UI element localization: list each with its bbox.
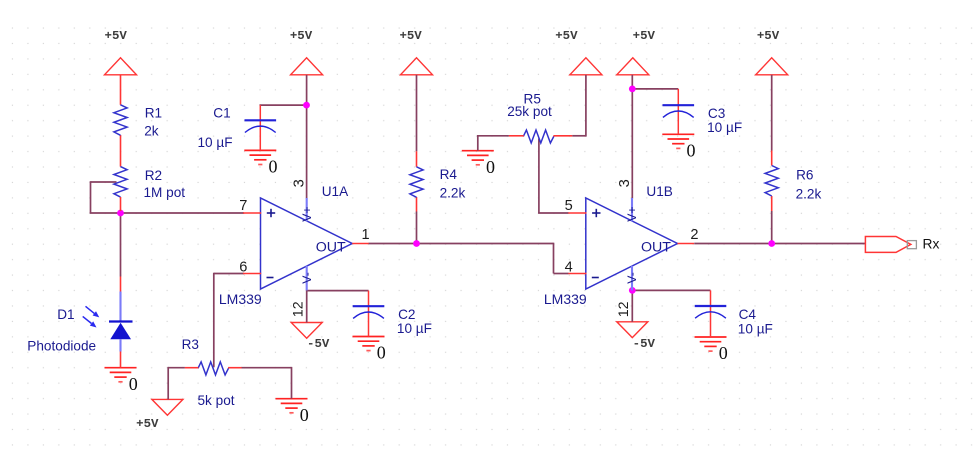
- junction: node A: [117, 210, 124, 217]
- -5V power symbol (U1B pin 12): [617, 322, 656, 351]
- ground 0 (below C3): [662, 134, 695, 160]
- svg-text:LM339: LM339: [544, 291, 587, 307]
- svg-text:V+: V+: [300, 206, 314, 221]
- svg-text:C3: C3: [708, 106, 725, 121]
- svg-text:0: 0: [129, 374, 138, 394]
- op-amp U1A: [243, 198, 369, 290]
- ground 0 (R5 left): [462, 151, 495, 177]
- wire: [167, 367, 169, 400]
- svg-text:D1: D1: [57, 307, 74, 322]
- svg-text:OUT: OUT: [316, 239, 346, 255]
- wire: U1A pin 6 horizontal: [214, 273, 244, 275]
- wire: C3 tap: [632, 88, 678, 90]
- svg-text:1: 1: [362, 227, 370, 243]
- svg-text:-5V: -5V: [307, 337, 330, 351]
- wire: U1B V- branch to C4: [632, 289, 710, 291]
- svg-text:+5V: +5V: [136, 417, 159, 431]
- wire: U1A output net: [369, 243, 554, 245]
- resistor R6: [765, 166, 778, 197]
- ground 0 (below C4): [695, 337, 728, 363]
- svg-text:R1: R1: [145, 106, 162, 121]
- off-page port Rx: [865, 237, 916, 253]
- wire: R5 left to ground: [478, 135, 509, 137]
- +5V power symbol (R6): [756, 29, 788, 75]
- wire: C1 tap: [260, 104, 307, 106]
- svg-text:+5V: +5V: [290, 29, 313, 43]
- ground 0 (R3 right): [276, 399, 309, 425]
- svg-text:C2: C2: [398, 307, 415, 322]
- svg-text:R4: R4: [440, 167, 458, 182]
- resistor R4 pins: [416, 151, 418, 211]
- potentiometer R5: [509, 130, 572, 143]
- wire: R5 right up to +5V: [572, 135, 586, 137]
- potentiometer R3: [185, 362, 242, 375]
- junction: U1A out / R4: [413, 240, 420, 247]
- wire: R2 wiper tap: [91, 181, 117, 183]
- svg-text:Photodiode: Photodiode: [27, 338, 96, 353]
- capacitor C2: [353, 291, 385, 337]
- svg-text:10 µF: 10 µF: [738, 322, 773, 337]
- wire: R3 left to +5V: [168, 367, 185, 369]
- svg-text:3: 3: [292, 179, 308, 187]
- svg-text:12: 12: [616, 301, 632, 317]
- svg-text:0: 0: [687, 141, 696, 161]
- junction: U1B V- / C4: [629, 287, 636, 294]
- resistor R1 pins: [120, 75, 122, 167]
- svg-text:U1A: U1A: [322, 184, 349, 199]
- wire: +5V down to R6: [771, 75, 773, 151]
- svg-text:10 µF: 10 µF: [707, 120, 742, 135]
- junction: C1 tap: [303, 102, 310, 109]
- svg-text:C4: C4: [739, 307, 757, 322]
- svg-text:V-: V-: [625, 272, 639, 284]
- svg-text:25k pot: 25k pot: [507, 104, 552, 119]
- +5V power symbol (R1 branch): [105, 29, 137, 75]
- capacitor C4: [695, 290, 727, 337]
- svg-text:6: 6: [239, 259, 247, 275]
- svg-text:+5V: +5V: [633, 29, 656, 43]
- capacitor C1: [245, 105, 277, 150]
- +5V power symbol (R5): [555, 29, 602, 75]
- svg-text:1M pot: 1M pot: [144, 185, 186, 200]
- wire: U1A V- branch to C2: [307, 290, 369, 292]
- svg-text:2.2k: 2.2k: [440, 186, 466, 201]
- wire: U1B output net to port: [694, 243, 865, 245]
- svg-text:V+: V+: [625, 206, 639, 221]
- svg-text:0: 0: [377, 343, 386, 363]
- wire: [553, 243, 555, 274]
- +5V power symbol (R4): [399, 29, 432, 75]
- svg-text:0: 0: [719, 343, 728, 363]
- wire: U1B V- down to -5V: [631, 290, 633, 322]
- junction: C3 tap: [629, 86, 636, 93]
- svg-text:2k: 2k: [144, 124, 159, 139]
- -5V power symbol (U1A pin 12): [291, 323, 330, 352]
- svg-text:10 µF: 10 µF: [198, 135, 233, 150]
- svg-text:C1: C1: [213, 106, 230, 121]
- wire: [554, 273, 569, 275]
- svg-text:5k pot: 5k pot: [198, 393, 235, 408]
- svg-text:V-: V-: [300, 272, 314, 284]
- wire: +5V down to R4: [416, 75, 418, 152]
- svg-text:R2: R2: [145, 168, 162, 183]
- svg-text:7: 7: [239, 198, 247, 214]
- wire: R4 bottom to output net: [416, 212, 418, 244]
- wire: [291, 367, 293, 399]
- wire: R6 bottom to output net: [771, 211, 773, 244]
- wire: R5 wiper down: [538, 139, 540, 214]
- resistor R6 pins: [771, 151, 773, 212]
- svg-text:+5V: +5V: [105, 29, 128, 43]
- capacitor C3: [663, 89, 695, 134]
- potentiometer R2: [114, 167, 127, 211]
- wire: to U1B pin 5: [538, 212, 568, 214]
- wire: U1A V- down to -5V: [306, 290, 308, 323]
- svg-text:4: 4: [565, 259, 573, 275]
- svg-text:+5V: +5V: [555, 29, 578, 43]
- +5V power symbol (U1A V+ / C1): [290, 29, 323, 75]
- svg-text:12: 12: [290, 301, 306, 317]
- wire: [477, 135, 479, 151]
- svg-text:+5V: +5V: [757, 29, 780, 43]
- svg-text:Rx: Rx: [923, 237, 940, 252]
- svg-text:10 µF: 10 µF: [397, 321, 432, 336]
- svg-text:R3: R3: [182, 337, 199, 352]
- svg-text:R6: R6: [796, 168, 813, 183]
- svg-text:2: 2: [690, 227, 698, 243]
- resistor R4: [410, 167, 423, 198]
- wire: node A down to D1: [120, 213, 122, 277]
- svg-text:0: 0: [486, 157, 495, 177]
- svg-text:LM339: LM339: [219, 291, 262, 307]
- ground 0 (below C1): [244, 150, 277, 176]
- +5V power symbol (U1B V+ / C3): [617, 29, 656, 75]
- svg-text:3: 3: [617, 179, 633, 187]
- op-amp U1B: [568, 198, 694, 290]
- wire: down to R3 wiper: [213, 273, 215, 368]
- diode D1 (photodiode): [83, 277, 133, 368]
- svg-text:-5V: -5V: [633, 337, 656, 351]
- svg-text:+5V: +5V: [399, 29, 422, 43]
- wire: [585, 75, 587, 137]
- wire: R3 right to ground: [241, 367, 291, 369]
- resistor R1: [114, 105, 127, 136]
- wire: wiper loop vertical: [90, 181, 92, 213]
- junction: U1B out / R6: [768, 240, 775, 247]
- ground 0 (below D1): [105, 368, 138, 394]
- wire: node A horizontal to U1A pin 7: [90, 212, 244, 214]
- ground 0 (below C2): [353, 337, 386, 363]
- svg-text:0: 0: [269, 157, 278, 177]
- svg-text:U1B: U1B: [646, 184, 672, 199]
- svg-text:5: 5: [565, 198, 573, 214]
- wire: +5V to U1A V+ (pin 3): [306, 75, 308, 199]
- svg-text:0: 0: [300, 405, 309, 425]
- svg-text:2.2k: 2.2k: [796, 186, 822, 201]
- wire: +5V to U1B V+ (pin 3): [631, 75, 633, 199]
- svg-text:OUT: OUT: [641, 239, 671, 255]
- +5V power symbol (R3 left, pointing down): [136, 399, 183, 431]
